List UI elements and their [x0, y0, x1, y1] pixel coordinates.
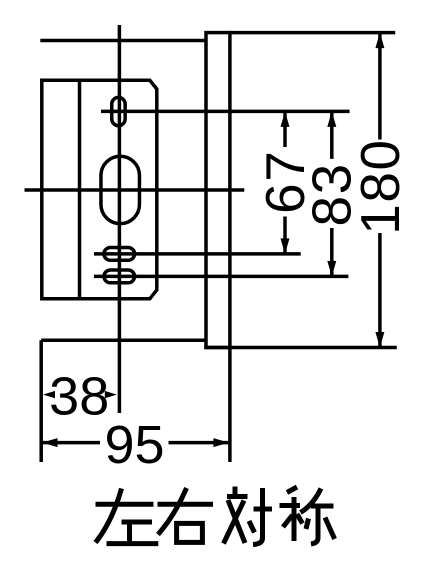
- arrowhead 180 up: [375, 33, 384, 49]
- dimension line 180: [378, 34, 382, 347]
- kanji 左 (left): [96, 489, 159, 544]
- mounting plate (edge view): [206, 33, 230, 348]
- wire extension line from slot S4: [94, 275, 348, 279]
- dimension line 95: [41, 441, 229, 445]
- arrowhead 83 down: [327, 261, 336, 277]
- wire left extension line for 95: [39, 340, 43, 462]
- dimension line 67: [283, 112, 287, 253]
- wire ceiling line: [40, 39, 206, 43]
- bracket flange bend line: [78, 80, 82, 298]
- svg-text:38: 38: [49, 366, 109, 426]
- wire lower body line: [41, 339, 206, 343]
- wire bottom extension line for 180: [204, 346, 396, 350]
- svg-text:95: 95: [104, 415, 164, 475]
- svg-text:180: 180: [349, 138, 411, 234]
- arrowhead 95 right: [213, 438, 229, 447]
- slot S4: [104, 270, 135, 283]
- horizontal centerline: [25, 188, 245, 192]
- kanji 称 (symmetry): [280, 487, 335, 544]
- arrowhead 38 left: [43, 391, 55, 398]
- arrowhead 95 left: [42, 438, 58, 447]
- wire extension line from top slot: [101, 110, 350, 114]
- arrowhead 67 down: [281, 238, 290, 254]
- slot S1 top slot: [112, 97, 125, 125]
- arrowhead 180 down: [375, 332, 384, 348]
- vertical centerline: [118, 25, 122, 413]
- slot S3: [104, 248, 135, 261]
- bracket outline: [42, 80, 157, 298]
- kanji 対 (opposite): [224, 487, 273, 545]
- kanji 右 (right): [158, 488, 214, 542]
- wire right extension line for 95: [228, 348, 232, 463]
- wire extension line from slot S3: [94, 252, 301, 256]
- arrowhead 83 up: [327, 111, 336, 127]
- arrowhead 67 up: [281, 111, 290, 127]
- slot S2 large slot: [101, 156, 140, 223]
- dimension line 83: [330, 112, 334, 275]
- arrowhead 38 right: [105, 391, 117, 398]
- wire top extension line for 180: [230, 31, 395, 35]
